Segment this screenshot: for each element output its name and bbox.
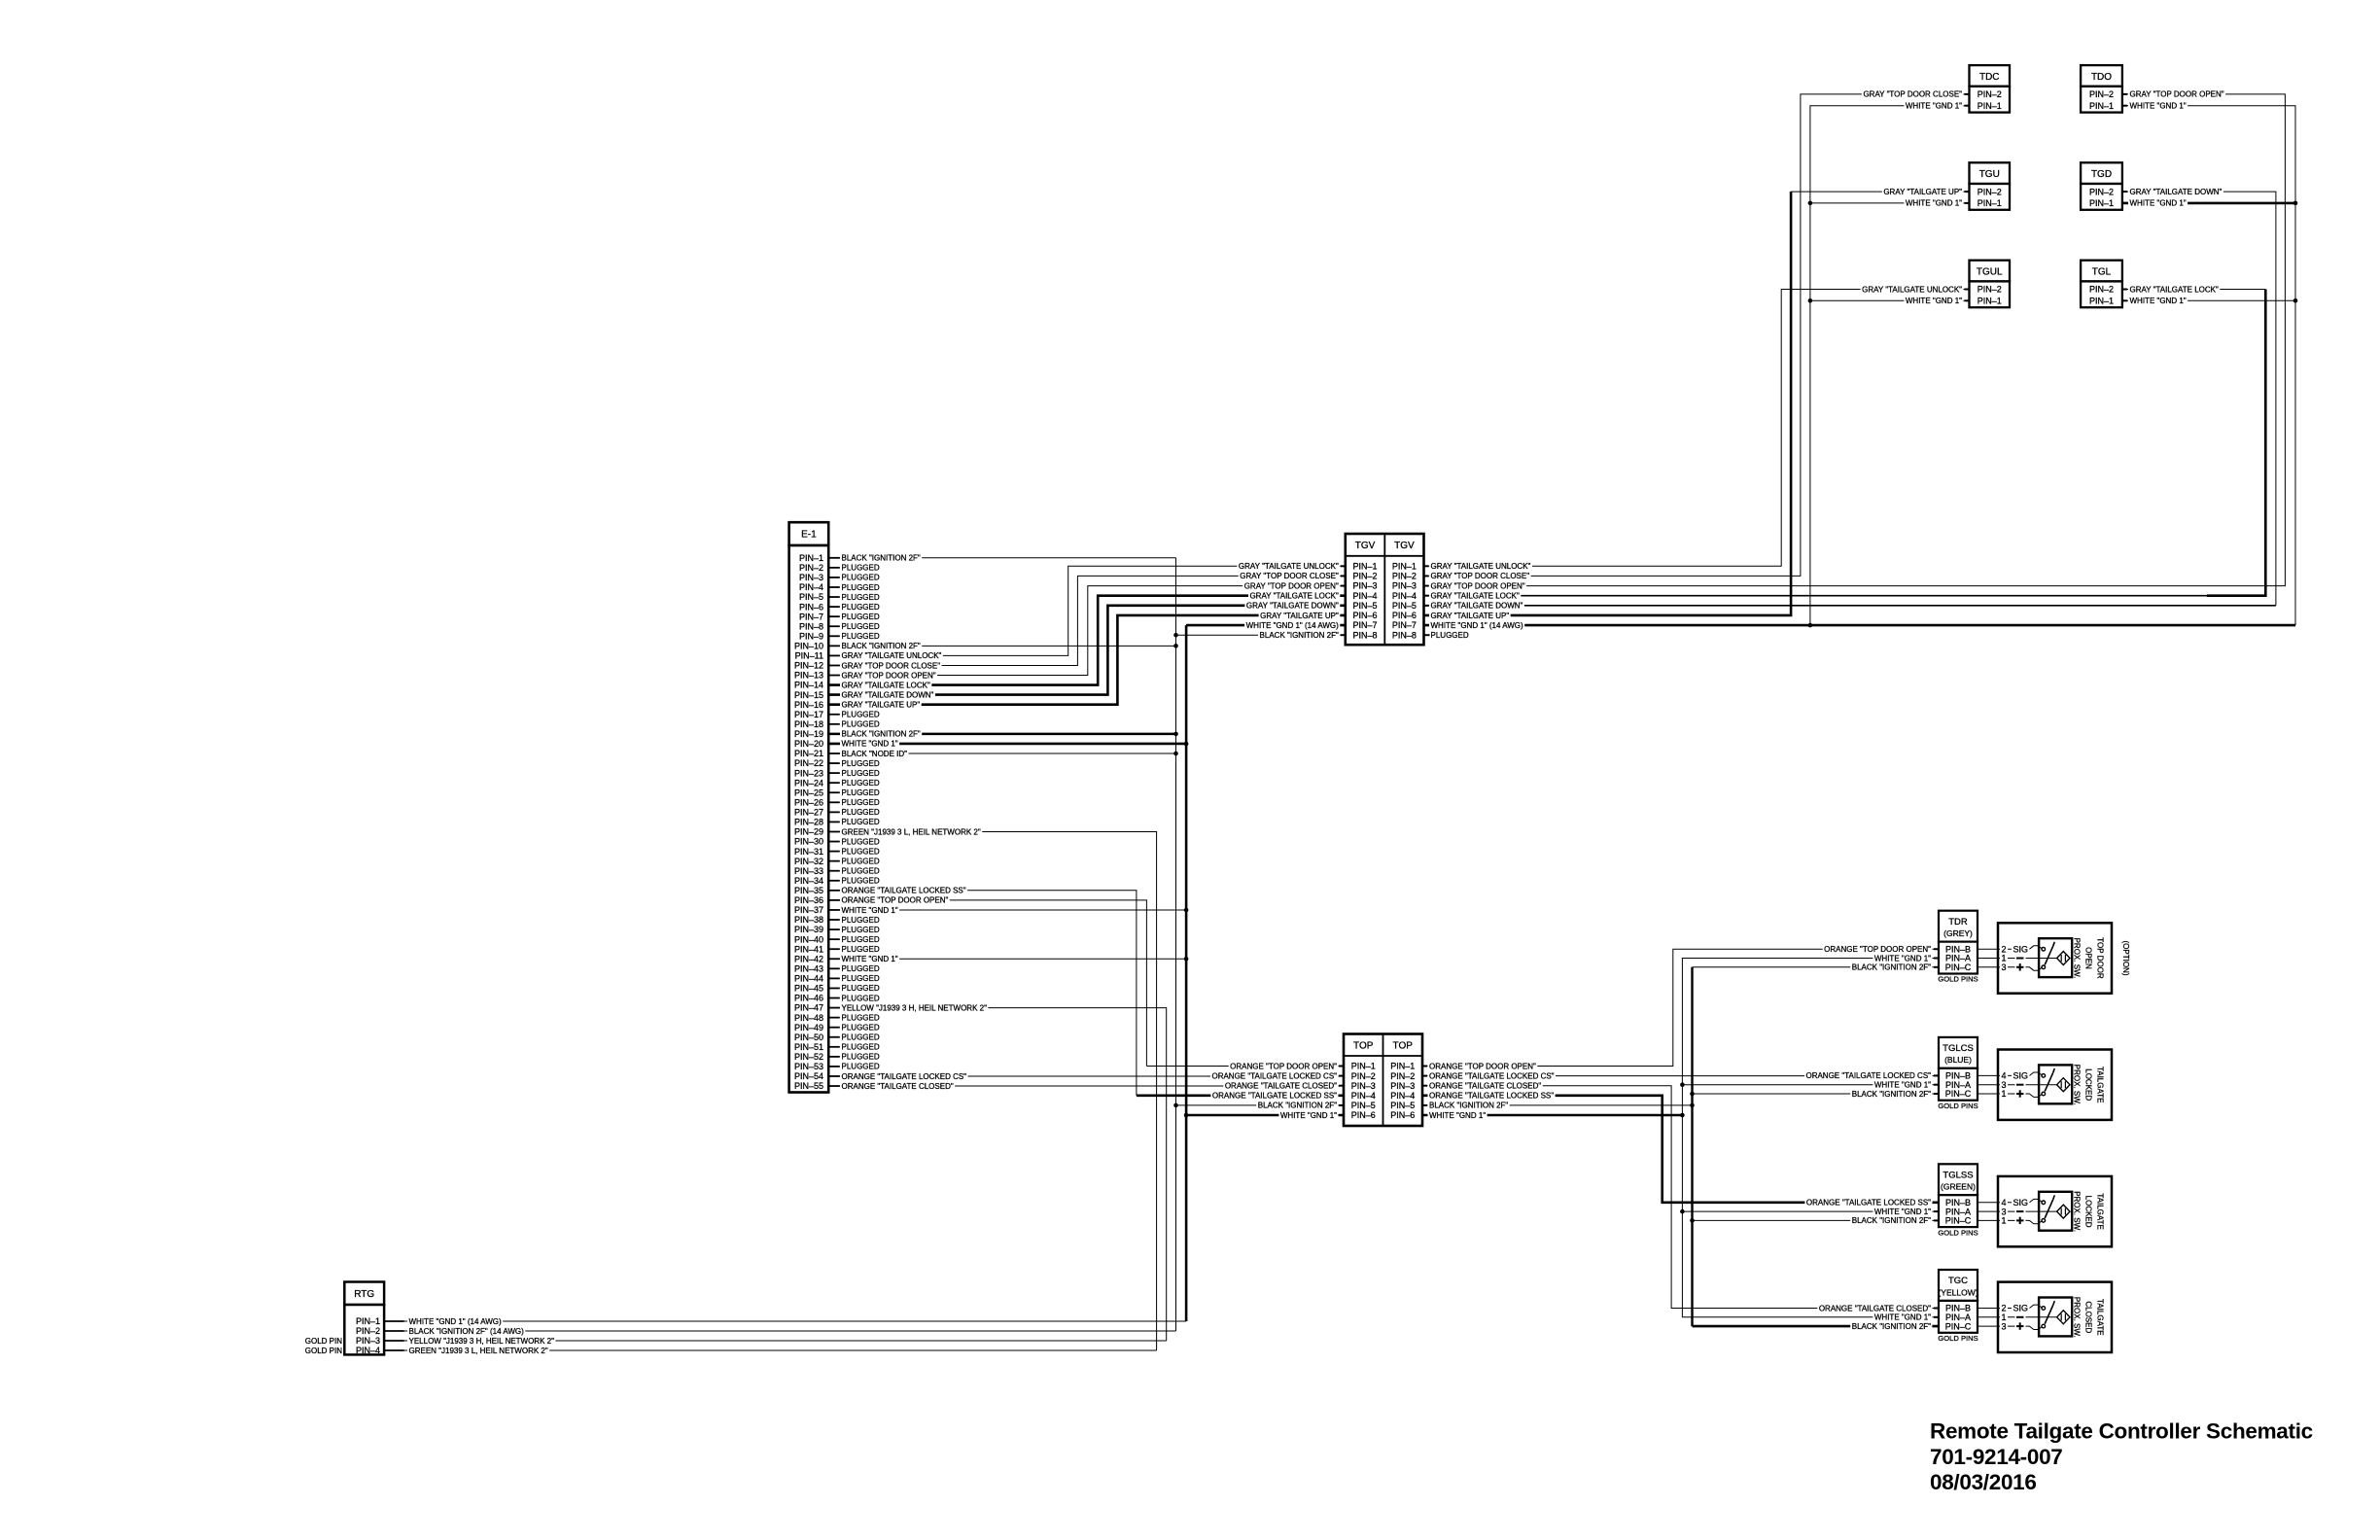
svg-text:PLUGGED: PLUGGED [842,1043,880,1052]
wire WHITE "GND 1" right column riser (TDO TGD TGL PIN-1) [2122,106,2295,625]
svg-text:PIN–28: PIN–28 [794,818,823,827]
label E-1 PIN-15 [840,691,935,699]
wire stub E-1 PIN-34 [828,880,840,882]
wire TGLCS PIN-B to prox switch terminal [1977,1074,1998,1076]
svg-text:ORANGE "TOP DOOR OPEN": ORANGE "TOP DOOR OPEN" [1230,1062,1337,1070]
label TGLCS PIN-A wire [1872,1081,1932,1089]
svg-text:WHITE "GND 1": WHITE "GND 1" [1906,199,1962,208]
svg-text:GOLD PINS: GOLD PINS [1938,1102,1977,1110]
wire BLACK "IGNITION 2F" TGV PIN-8 left to ignition bus [1176,634,1346,636]
svg-text:PIN–24: PIN–24 [794,778,823,787]
label TGV PIN-4 left [1248,592,1340,600]
wire BLACK "IGNITION 2F" E-1 PIN-10 to ignition bus [828,645,1175,647]
wire BLACK "IGNITION 2F" TOP PIN-5 right [1422,1104,1693,1106]
svg-text:PIN–37: PIN–37 [794,905,823,915]
svg-text:GRAY "TAILGATE DOWN": GRAY "TAILGATE DOWN" [842,690,934,699]
junction left ground riser at TGUL PIN-1 [1808,298,1813,303]
svg-text:BLACK "IGNITION 2F": BLACK "IGNITION 2F" [1852,1216,1931,1225]
label TOP PIN-5 left [1256,1102,1338,1109]
wire GRAY "TAILGATE LOCK" TGV PIN-4 to TGL riser [1424,595,2208,597]
svg-text:PIN–48: PIN–48 [794,1013,823,1023]
label TOP PIN-4 left [1210,1092,1338,1100]
svg-text:BLACK "IGNITION 2F": BLACK "IGNITION 2F" [842,554,921,563]
label TGV PIN-7 left [1244,621,1340,629]
junction right ground riser at TOP PIN-6 [1680,1113,1685,1118]
label E-1 PIN-29 [840,827,982,835]
label TOP PIN-5 right [1428,1102,1510,1109]
svg-text:PIN–11: PIN–11 [795,651,823,661]
svg-text:PIN–4: PIN–4 [1353,591,1378,601]
svg-text:PIN–19: PIN–19 [794,729,823,739]
wire stub E-1 PIN-2 [828,567,840,569]
wire stub E-1 PIN-3 [828,577,840,578]
svg-text:ORANGE "TOP DOOR OPEN": ORANGE "TOP DOOR OPEN" [1824,945,1931,954]
wire WHITE "GND 1" TGLCS PIN-A stub [1682,1084,1939,1086]
svg-text:ORANGE "TAILGATE LOCKED SS": ORANGE "TAILGATE LOCKED SS" [842,887,966,895]
svg-text:PIN–3: PIN–3 [799,573,823,582]
svg-text:YELLOW "J1939 3 H, HEIL NETWOR: YELLOW "J1939 3 H, HEIL NETWORK 2" [409,1337,555,1346]
wire ORANGE "TAILGATE LOCKED CS" TOP PIN-2 to TGLCS PIN-B [1422,1075,1939,1077]
svg-text:TGL: TGL [2092,266,2112,277]
wire stub E-1 PIN-31 [828,851,840,853]
svg-text:PLUGGED: PLUGGED [842,583,880,592]
wire leader stubs at connector box edges [1341,565,1346,567]
connector TDR (GREY) [1938,911,1977,984]
wire TGLCS PIN-C to prox switch terminal [1977,1093,1998,1095]
wire BLACK "IGNITION 2F" TOP PIN-5 left [1176,1104,1345,1106]
label TGV PIN-6 left [1259,612,1341,619]
svg-text:ORANGE "TAILGATE LOCKED CS": ORANGE "TAILGATE LOCKED CS" [1429,1071,1555,1080]
svg-text:PIN–32: PIN–32 [794,857,823,866]
wire WHITE "GND 1" TGU PIN-1 stub [1810,202,1970,204]
svg-text:LOCKED: LOCKED [2084,1196,2093,1228]
label E-1 PIN-14 [840,681,931,688]
svg-text:PLUGGED: PLUGGED [842,788,880,797]
svg-text:ORANGE "TOP DOOR OPEN": ORANGE "TOP DOOR OPEN" [1429,1062,1536,1070]
label TGUL PIN-2 wire [1861,285,1964,293]
svg-text:GOLD PIN: GOLD PIN [305,1347,342,1355]
svg-text:TGC: TGC [1948,1276,1968,1286]
svg-text:CLOSED: CLOSED [2084,1301,2093,1333]
svg-text:BLACK "IGNITION 2F": BLACK "IGNITION 2F" [1429,1102,1508,1110]
label TGV PIN-5 right [1429,602,1524,610]
svg-text:TDR: TDR [1948,917,1968,927]
svg-text:PLUGGED: PLUGGED [1431,631,1469,640]
svg-text:PIN–43: PIN–43 [794,963,823,973]
label TGLSS PIN-B wire [1804,1199,1932,1207]
svg-text:PROX. SW.: PROX. SW. [2073,1297,2082,1338]
svg-text:PLUGGED: PLUGGED [842,847,880,856]
svg-text:PIN–3: PIN–3 [1392,581,1417,591]
svg-text:WHITE "GND 1": WHITE "GND 1" [1874,1207,1931,1216]
svg-text:PLUGGED: PLUGGED [842,964,880,973]
svg-text:PIN–1: PIN–1 [2089,198,2114,208]
svg-text:1: 1 [2002,1216,2007,1226]
svg-text:PIN–6: PIN–6 [799,602,823,612]
wire stub E-1 PIN-13 [828,675,840,677]
junction ignition bus at E-1 PIN-21 [1173,752,1178,756]
svg-text:SIG: SIG [2013,1198,2029,1207]
svg-text:WHITE "GND 1": WHITE "GND 1" [2130,102,2187,111]
svg-text:PIN–2: PIN–2 [1390,1071,1415,1081]
prox switch TAILGATE CLOSED PROX. SW. [1998,1282,2112,1352]
junction ignition bus at TOP PIN-5 [1173,1103,1178,1108]
svg-text:PIN–7: PIN–7 [799,612,823,621]
svg-text:TAILGATE: TAILGATE [2096,1193,2105,1230]
svg-text:PIN–5: PIN–5 [799,592,823,602]
svg-text:TGV: TGV [1394,541,1415,551]
svg-text:PIN–27: PIN–27 [794,808,823,818]
svg-text:PIN–16: PIN–16 [794,700,823,710]
svg-text:PIN–1: PIN–1 [1977,198,2002,208]
wire stub E-1 PIN-37 [828,909,840,911]
wire WHITE "GND 1" (14 AWG) RTG PIN-1 to ground bus [384,1320,1186,1322]
svg-text:PIN–4: PIN–4 [799,582,823,592]
wire WHITE "GND 1" TOP PIN-6 right [1422,1114,1682,1117]
svg-text:PLUGGED: PLUGGED [842,622,880,631]
svg-text:GRAY "TAILGATE LOCK": GRAY "TAILGATE LOCK" [2130,285,2219,294]
svg-text:TGLCS: TGLCS [1942,1043,1974,1054]
svg-text:GRAY "TAILGATE UNLOCK": GRAY "TAILGATE UNLOCK" [842,651,942,660]
wire TGLSS PIN-C to prox switch terminal [1977,1219,1998,1221]
wire ORANGE "TAILGATE CLOSED" E-1 PIN-55 to TOP PIN-3 [828,1085,1344,1087]
svg-text:PLUGGED: PLUGGED [842,1063,880,1071]
svg-text:ORANGE "TAILGATE CLOSED": ORANGE "TAILGATE CLOSED" [842,1082,954,1091]
wire TGC PIN-A to prox switch terminal [1977,1316,1998,1318]
svg-text:LOCKED: LOCKED [2084,1068,2093,1101]
wire GRAY "TAILGATE LOCK" E-1 PIN-14 to TGV PIN-4 [828,596,1346,685]
connector TGD [2081,162,2122,210]
svg-text:GOLD PINS: GOLD PINS [1938,975,1977,984]
svg-text:PROX. SW.: PROX. SW. [2073,1191,2082,1232]
svg-text:PLUGGED: PLUGGED [842,935,880,944]
wire stub E-1 PIN-12 [828,664,840,666]
svg-text:GRAY "TAILGATE DOWN": GRAY "TAILGATE DOWN" [2130,188,2222,196]
wire stub E-1 PIN-6 [828,606,840,608]
wire stub E-1 PIN-11 [828,654,840,656]
svg-text:GRAY "TAILGATE LOCK": GRAY "TAILGATE LOCK" [1249,591,1338,600]
svg-text:PLUGGED: PLUGGED [842,1053,880,1062]
wire BLACK "IGNITION 2F" E-1 PIN-19 to ignition bus [828,733,1175,736]
wire TGLSS PIN-B to prox switch terminal [1977,1202,1998,1204]
wire stub E-1 PIN-40 [828,938,840,940]
svg-text:PIN–31: PIN–31 [794,847,823,857]
wire stub E-1 PIN-28 [828,821,840,822]
svg-text:PLUGGED: PLUGGED [842,720,880,729]
wire stub E-1 PIN-51 [828,1046,840,1048]
svg-text:PIN–23: PIN–23 [794,768,823,778]
svg-text:1: 1 [2002,1089,2007,1099]
wire ORANGE "TOP DOOR OPEN" TOP PIN-1 to TDR PIN-B [1422,949,1939,1066]
wire stub E-1 PIN-41 [828,948,840,950]
svg-text:PIN–C: PIN–C [1945,1216,1972,1226]
svg-text:(GREY): (GREY) [1943,928,1973,938]
wire stub E-1 PIN-21 [828,752,840,754]
svg-text:PLUGGED: PLUGGED [842,711,880,719]
wire GRAY "TAILGATE DOWN" TGV PIN-5 to TGD riser [1424,605,2276,607]
svg-text:PIN–2: PIN–2 [2089,89,2114,99]
label TDC PIN-1 wire [1904,102,1963,110]
svg-text:PIN–14: PIN–14 [794,681,823,690]
svg-text:PIN–55: PIN–55 [794,1081,823,1091]
label TGV PIN-8 left [1258,631,1340,639]
wire ORANGE "TAILGATE LOCKED CS" E-1 PIN-54 to TOP PIN-2 [828,1075,1344,1077]
label E-1 PIN-21 [840,750,909,757]
svg-text:PIN–38: PIN–38 [794,915,823,925]
svg-text:PIN–4: PIN–4 [1390,1091,1415,1101]
label TGV PIN-7 right [1429,621,1524,629]
connector TDC [1970,65,2011,113]
junction ignition bus at E-1 PIN-10 [1173,644,1178,648]
svg-text:PLUGGED: PLUGGED [842,974,880,983]
svg-text:PIN–C: PIN–C [1945,962,1972,972]
label TDR PIN-A wire [1872,954,1932,962]
svg-text:PIN–8: PIN–8 [1392,630,1417,640]
junction ground bus at TOP PIN-6 [1184,1113,1189,1118]
svg-text:PIN–46: PIN–46 [794,994,823,1003]
svg-text:PIN–33: PIN–33 [794,866,823,876]
svg-text:PIN–2: PIN–2 [2089,285,2114,295]
svg-text:WHITE "GND 1": WHITE "GND 1" [842,955,898,963]
svg-text:PIN–5: PIN–5 [1351,1101,1376,1110]
label TDR PIN-B wire [1823,945,1933,953]
svg-text:TGV: TGV [1355,541,1376,551]
svg-text:BLACK "IGNITION 2F": BLACK "IGNITION 2F" [1258,1102,1337,1110]
wire WHITE "GND 1" TGUL PIN-1 stub [1810,299,1970,301]
svg-text:PLUGGED: PLUGGED [842,759,880,768]
wire BLACK "IGNITION 2F" E-1 PIN-1 to ignition bus [828,557,1175,559]
svg-text:PIN–34: PIN–34 [794,876,823,886]
svg-text:PIN–51: PIN–51 [794,1042,823,1052]
svg-text:PIN–2: PIN–2 [1353,572,1378,581]
svg-text:GRAY "TOP DOOR CLOSE": GRAY "TOP DOOR CLOSE" [1240,572,1339,580]
wire TGLSS PIN-A to prox switch terminal [1977,1210,1998,1212]
svg-text:GOLD PINS: GOLD PINS [1938,1228,1977,1237]
svg-text:PIN–49: PIN–49 [794,1023,823,1032]
svg-text:PLUGGED: PLUGGED [842,769,880,778]
svg-text:SIG: SIG [2013,1304,2029,1313]
svg-text:BLACK "IGNITION 2F": BLACK "IGNITION 2F" [842,730,921,739]
junction ignition bus at TGV PIN-8 [1173,633,1178,638]
wire stub E-1 PIN-5 [828,596,840,598]
svg-text:WHITE "GND 1": WHITE "GND 1" [842,906,898,915]
label TGV PIN-1 left [1237,562,1340,570]
svg-text:BLACK "IGNITION 2F": BLACK "IGNITION 2F" [1852,1322,1931,1331]
label TDR PIN-C wire [1850,963,1932,971]
wire ORANGE "TOP DOOR OPEN" TOP PIN-1 left [1146,1066,1344,1067]
svg-text:PROX. SW.: PROX. SW. [2073,938,2082,979]
wire GREEN "J1939 3 L, HEIL NETWORK 2" E-1 PIN-29 riser to RTG PIN-4 [828,832,1156,1351]
label TGV PIN-4 right [1429,592,1521,600]
wire BLACK "IGNITION 2F" (14 AWG) RTG PIN-2 to ignition bus [384,1330,1175,1332]
wire TDR PIN-A to prox switch terminal [1977,958,1998,960]
svg-text:PIN–6: PIN–6 [1390,1110,1415,1120]
wire TDR PIN-B to prox switch terminal [1977,948,1998,950]
svg-text:PLUGGED: PLUGGED [842,612,880,621]
svg-text:PIN–2: PIN–2 [1351,1071,1376,1081]
junction ground bus at E-1 PIN-42 [1184,957,1189,962]
wire stub E-1 PIN-36 [828,899,840,901]
wire stub E-1 PIN-26 [828,801,840,803]
wire BLACK "IGNITION 2F" TGC PIN-C stub [1693,1325,1940,1328]
svg-text:WHITE "GND 1": WHITE "GND 1" [1429,1111,1486,1120]
junction right ignition riser at TGLCS PIN-C [1690,1092,1695,1097]
junction ground bus at E-1 PIN-20 [1184,742,1189,747]
svg-text:PIN–3: PIN–3 [1353,581,1378,591]
svg-text:PLUGGED: PLUGGED [842,564,880,573]
wire stub E-1 PIN-49 [828,1027,840,1029]
label TOP PIN-3 left [1223,1082,1338,1090]
wire GREEN "J1939 3 L, HEIL NETWORK 2" RTG PIN-4 [384,1349,1157,1351]
svg-text:PLUGGED: PLUGGED [842,603,880,612]
label E-1 PIN-42 [840,955,899,962]
svg-text:GRAY "TOP DOOR CLOSE": GRAY "TOP DOOR CLOSE" [1431,572,1530,580]
svg-text:TDO: TDO [2091,72,2112,83]
wire stub E-1 PIN-54 [828,1075,840,1077]
svg-text:PLUGGED: PLUGGED [842,798,880,807]
svg-text:PIN–C: PIN–C [1945,1321,1972,1331]
svg-text:PIN–2: PIN–2 [1977,285,2002,295]
svg-text:(YELLOW): (YELLOW) [1938,1287,1977,1297]
svg-text:PLUGGED: PLUGGED [842,877,880,886]
wire stub E-1 PIN-47 [828,1007,840,1009]
wire GRAY "TOP DOOR CLOSE" TGV PIN-2 to TDC riser [1424,94,1970,577]
svg-text:TOP: TOP [1393,1040,1414,1051]
svg-text:PIN–C: PIN–C [1945,1089,1972,1099]
svg-text:GRAY "TOP DOOR CLOSE": GRAY "TOP DOOR CLOSE" [1863,90,1962,99]
wire stub E-1 PIN-50 [828,1036,840,1038]
wire TGC PIN-B to prox switch terminal [1977,1308,1998,1310]
wire stub E-1 PIN-44 [828,977,840,979]
svg-text:PIN–12: PIN–12 [794,661,823,671]
label TGV PIN-3 left [1242,581,1340,589]
wire stub TGV PIN-8 right plugged [1424,634,1430,636]
label TGU PIN-1 wire [1904,199,1963,207]
svg-text:ORANGE "TAILGATE CLOSED": ORANGE "TAILGATE CLOSED" [1429,1082,1541,1091]
wire GRAY "TAILGATE UP" TGU PIN-2 stub [1791,191,1969,192]
svg-text:GRAY "TOP DOOR OPEN": GRAY "TOP DOOR OPEN" [1244,581,1339,590]
connector TGL [2081,261,2122,307]
wire stub E-1 PIN-4 [828,586,840,588]
wire stub E-1 PIN-52 [828,1056,840,1058]
svg-text:BLACK "IGNITION 2F": BLACK "IGNITION 2F" [1260,631,1339,640]
label TGLCS PIN-B wire [1804,1071,1933,1079]
connector TDO [2081,65,2122,113]
wire TGC PIN-C to prox switch terminal [1977,1325,1998,1327]
svg-text:PIN–2: PIN–2 [1977,89,2002,99]
svg-text:PIN–8: PIN–8 [799,621,823,631]
wire BLACK "NODE ID" E-1 PIN-21 to ignition bus [828,752,1175,754]
label RTG PIN-1 wire [407,1317,503,1325]
svg-text:(BLUE): (BLUE) [1944,1055,1972,1065]
wire ORANGE "TAILGATE LOCKED SS" TOP PIN-4 to TGLSS PIN-B [1422,1096,1939,1203]
svg-text:PIN–10: PIN–10 [794,641,823,650]
label E-1 PIN-54 [840,1072,968,1080]
svg-text:PIN–26: PIN–26 [794,797,823,807]
wire TGLCS PIN-A to prox switch terminal [1977,1084,1998,1086]
wire GRAY "TAILGATE UNLOCK" E-1 PIN-11 to TGV PIN-1 [828,566,1346,655]
connector TGC (YELLOW) [1938,1270,1977,1343]
svg-text:PIN–6: PIN–6 [1353,611,1378,620]
wire stub E-1 PIN-14 [828,684,840,686]
label E-1 PIN-47 [840,1003,988,1011]
junction right ignition riser at TOP PIN-5 [1690,1103,1695,1108]
connector TOP TOP (double) [1344,1034,1422,1127]
svg-text:PLUGGED: PLUGGED [842,818,880,826]
label E-1 PIN-20 [840,740,899,748]
svg-text:PIN–50: PIN–50 [794,1032,823,1042]
svg-text:PIN–21: PIN–21 [794,749,823,758]
svg-text:BLACK "IGNITION 2F": BLACK "IGNITION 2F" [1852,1090,1931,1099]
wire stub E-1 PIN-38 [828,919,840,921]
junction right ground riser at TGD PIN-1 [2293,201,2298,206]
connector RTG [344,1282,384,1356]
svg-text:PLUGGED: PLUGGED [842,867,880,876]
svg-text:PIN–22: PIN–22 [794,758,823,768]
wire WHITE "GND 1" TGD PIN-1 stub [2122,202,2295,205]
wire BLACK "IGNITION 2F" TGLCS PIN-C stub [1693,1093,1940,1095]
label TGC PIN-A wire [1872,1313,1932,1321]
junction ignition bus at E-1 PIN-19 [1173,732,1178,737]
svg-text:PIN–1: PIN–1 [1351,1062,1376,1071]
svg-text:PIN–1: PIN–1 [1390,1062,1415,1071]
svg-text:PIN–39: PIN–39 [794,925,823,934]
svg-text:TAILGATE: TAILGATE [2096,1299,2105,1336]
wire stub E-1 PIN-15 [828,694,840,696]
svg-text:PIN–29: PIN–29 [794,827,823,837]
svg-text:PLUGGED: PLUGGED [842,994,880,1002]
svg-text:E-1: E-1 [801,530,817,541]
svg-text:PIN–3: PIN–3 [1351,1081,1376,1091]
wire YELLOW "J1939 3 H, HEIL NETWORK 2" RTG PIN-3 [384,1340,1167,1342]
svg-text:GRAY "TAILGATE UNLOCK": GRAY "TAILGATE UNLOCK" [1862,285,1962,294]
wire stub E-1 PIN-35 [828,890,840,892]
svg-text:GRAY "TAILGATE UP": GRAY "TAILGATE UP" [1260,612,1339,620]
svg-text:(GREEN): (GREEN) [1941,1182,1976,1192]
svg-text:PIN–52: PIN–52 [794,1052,823,1062]
svg-text:BLACK "IGNITION 2F": BLACK "IGNITION 2F" [1852,963,1931,972]
label E-1 PIN-1 [840,554,922,562]
wire GRAY "TOP DOOR CLOSE" E-1 PIN-12 to TGV PIN-2 [828,576,1346,665]
svg-text:SIG: SIG [2013,944,2029,954]
label TDC PIN-2 wire [1862,90,1964,98]
prox switch TAILGATE LOCKED PROX. SW. [1998,1176,2112,1246]
svg-text:08/03/2016: 08/03/2016 [1930,1470,2037,1494]
label E-1 PIN-10 [840,642,922,649]
svg-text:GRAY "TOP DOOR OPEN": GRAY "TOP DOOR OPEN" [842,671,936,680]
svg-text:PIN–1: PIN–1 [1353,561,1378,571]
junction right ground riser at TGL PIN-1 [2293,298,2298,303]
wire stub E-1 PIN-45 [828,987,840,989]
svg-text:PIN–9: PIN–9 [799,631,823,641]
svg-text:WHITE "GND 1" (14 AWG): WHITE "GND 1" (14 AWG) [409,1317,503,1326]
svg-text:BLACK "NODE ID": BLACK "NODE ID" [842,750,908,758]
wire stub E-1 PIN-10 [828,645,840,647]
svg-text:PLUGGED: PLUGGED [842,926,880,934]
svg-text:PIN–35: PIN–35 [794,886,823,895]
svg-text:PLUGGED: PLUGGED [842,837,880,846]
svg-text:GRAY "TAILGATE UNLOCK": GRAY "TAILGATE UNLOCK" [1431,562,1531,571]
label TGC PIN-B wire [1817,1304,1932,1312]
svg-text:TGU: TGU [1979,169,2000,180]
svg-text:BLACK "IGNITION 2F": BLACK "IGNITION 2F" [842,642,921,650]
wire stub E-1 PIN-25 [828,791,840,793]
wire stub E-1 PIN-19 [828,733,840,735]
svg-text:TGLSS: TGLSS [1942,1170,1973,1180]
svg-text:PIN–18: PIN–18 [794,719,823,729]
wire stub E-1 PIN-43 [828,967,840,969]
connector E-1 [789,522,829,1092]
